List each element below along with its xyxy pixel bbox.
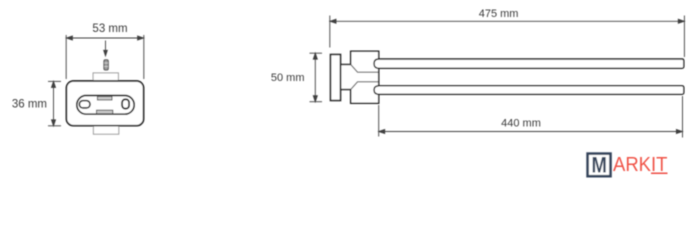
pivot block with fork arm (silhouette) bbox=[341, 51, 379, 103]
dimension line 475 mm bbox=[330, 16, 685, 58]
bottom tab of bracket bbox=[93, 126, 118, 135]
dimension line 440 mm bbox=[379, 96, 683, 138]
mounting pin on top of bracket bbox=[104, 60, 108, 70]
svg-text:475 mm: 475 mm bbox=[479, 8, 519, 20]
top tab of bracket bbox=[93, 73, 118, 81]
svg-text:50 mm: 50 mm bbox=[271, 72, 305, 84]
wall plate bbox=[331, 55, 341, 101]
center leader arrow pointing down to pin bbox=[104, 41, 108, 56]
svg-text:440 mm: 440 mm bbox=[501, 118, 541, 130]
bottom slot in pill bbox=[97, 110, 113, 114]
bracket body outline bbox=[66, 81, 143, 126]
logo underline under IT bbox=[651, 173, 668, 175]
svg-text:53 mm: 53 mm bbox=[92, 23, 127, 35]
dimension line 50 mm bbox=[310, 53, 323, 101]
dimension line 53 mm bbox=[66, 35, 144, 79]
svg-text:36 mm: 36 mm bbox=[12, 99, 47, 111]
svg-text:M: M bbox=[592, 153, 607, 178]
right oval hole bbox=[122, 99, 129, 108]
left oval hole bbox=[79, 101, 90, 108]
bottom towel bar bbox=[374, 86, 684, 95]
top slot in pill bbox=[97, 96, 112, 100]
inner pill (backplate slot) bbox=[77, 96, 134, 115]
dimension line 36 mm bbox=[48, 81, 61, 125]
fork arm internal edges: funnel diagonals and shaft bbox=[351, 65, 379, 90]
logo box with M bbox=[588, 153, 611, 178]
top towel bar bbox=[374, 59, 684, 68]
